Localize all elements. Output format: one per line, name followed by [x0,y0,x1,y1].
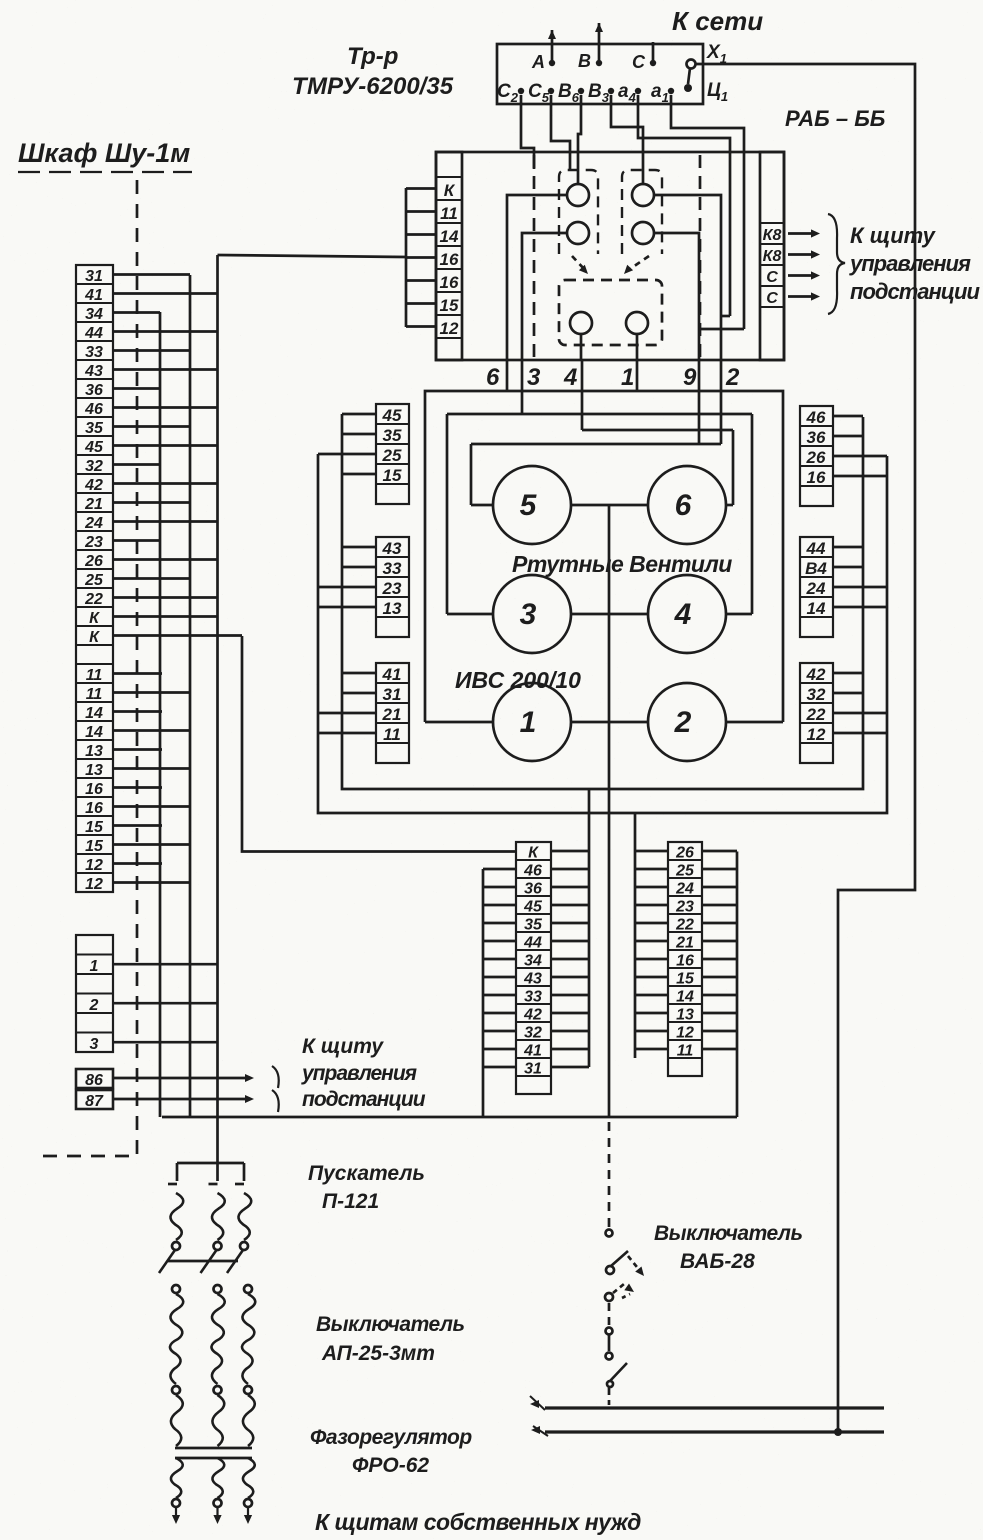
strip cell 42 [800,663,833,683]
stub wire 22 right [702,922,737,925]
strip cell 22 [800,703,833,723]
breaker top terminal x=248 [244,1285,252,1293]
svg-text:13: 13 [383,599,402,618]
ВАБ blade lower [610,1363,627,1381]
svg-text:24: 24 [806,579,826,598]
svg-text:25: 25 [382,446,402,465]
starter top bar left [177,1162,218,1165]
contact circle a1 [567,184,589,206]
svg-text:9: 9 [683,364,697,391]
stub wire 11 left [635,1048,668,1051]
svg-text:26: 26 [806,448,826,467]
svg-text:41: 41 [523,1043,542,1060]
РАБ strip cell 12 [436,315,462,338]
svg-text:42: 42 [84,477,103,494]
stub wire 42 [113,482,217,485]
cabinet bus 3 [216,255,219,1163]
cabinet strip cell 31 [76,265,113,284]
svg-text:31: 31 [85,268,103,285]
dashed frame line left [533,155,536,357]
wire a4 into РАБ right [638,95,730,316]
brace for К щиту управления [828,214,845,314]
breaker mid terminal [244,1386,252,1394]
РАБ strip cell С [760,265,784,286]
svg-text:23: 23 [675,899,694,916]
svg-text:подстанции: подстанции [302,1088,426,1111]
strip cell 11 [376,723,409,743]
stub wire 25 left [635,868,668,871]
dashed contact group box upper-right [622,170,662,254]
stub wire 14 [406,233,436,236]
stub wire 15 [406,302,436,305]
stub wire 14 [113,710,162,713]
contact circle c1 [570,312,592,334]
stub wire 23 left [635,904,668,907]
strip cell 14 [668,986,702,1004]
stub wire 16 [113,805,190,808]
svg-text:В: В [578,51,591,71]
svg-text:14: 14 [85,724,103,741]
stub wire 23 [113,539,160,542]
svg-text:36: 36 [807,428,826,447]
terminal 87 [76,1090,113,1109]
strip cell 44 [800,537,833,557]
breaker mid terminal [172,1386,180,1394]
svg-text:11: 11 [383,725,401,744]
stub wire 34 [113,311,160,314]
svg-text:Ртутные Вентили: Ртутные Вентили [512,551,732,577]
mercury valve 4 [648,575,726,653]
strip cell 35 [376,424,409,444]
bus left of bottom-left strip [482,869,485,1117]
stub wire 45 [113,444,217,447]
strip cell 42 [516,1004,551,1022]
cabinet strip cell К [76,607,113,626]
tie a4-wire to lead 2 [721,315,730,318]
ВАБ blade upper [611,1251,628,1266]
svg-text:РАБ – ББ: РАБ – ББ [785,106,885,131]
ВАБ contact 2 [606,1266,614,1274]
svg-text:11: 11 [440,204,458,223]
stub wire 26 [833,455,887,458]
svg-text:К: К [89,629,100,646]
stub wire К [113,634,242,637]
stub wire 13 right [702,1012,737,1015]
stub wire 16 [406,256,436,259]
РАБ strip cell С [760,286,784,307]
svg-text:15: 15 [85,819,104,836]
dashed link [608,1303,611,1326]
strip 46/36/26/16 [800,406,833,506]
cabinet strip cell 46 [76,398,113,417]
output arrow down [247,1508,249,1518]
strip cell 13 [376,597,409,617]
svg-text:К8: К8 [763,227,782,244]
svg-text:15: 15 [383,466,402,485]
РАБ left terminal strip (К,11,14,16,16,15,12) [436,152,462,360]
svg-text:46: 46 [523,863,542,880]
wire contact b1 to lead 2 [654,195,721,360]
svg-text:44: 44 [523,935,542,952]
breaker element upper x=217.5 [211,1294,224,1384]
stub wire 12 left [635,1030,668,1033]
svg-text:12: 12 [676,1025,694,1042]
svg-text:16: 16 [676,953,694,970]
stub wire 25 right [702,868,737,871]
ВАБ contact 1 [606,1230,613,1237]
strip cell К [516,842,551,860]
cabinet strip cell 16 [76,797,113,816]
bottom-left terminal strip [516,842,551,1094]
stub wire 36 [833,435,863,438]
stub wire 14 left [635,994,668,997]
mercury valve 2 [648,683,726,761]
stub wire 32 right [551,1030,589,1033]
stub wire 22 [113,596,217,599]
stub wire 16 left [635,958,668,961]
svg-text:К: К [528,845,539,862]
strip cell 14 [800,597,833,617]
output arrow down [175,1508,177,1518]
contact circle b2 [632,222,654,244]
stub wire 42 [833,672,863,675]
strip cell 24 [800,577,833,597]
strip 45/35/25/15 [376,404,409,504]
strip cell 26 [668,842,702,860]
strip cell 21 [668,932,702,950]
strip cell 26 [800,446,833,466]
svg-text:87: 87 [85,1093,104,1110]
РАБ strip cell 16 [436,269,462,292]
svg-text:22: 22 [84,591,103,608]
svg-text:21: 21 [675,935,694,952]
svg-text:3: 3 [520,598,537,631]
strip cell 32 [516,1022,551,1040]
svg-text:41: 41 [84,287,103,304]
svg-text:К щиту: К щиту [302,1035,384,1058]
stub wire 12 [833,732,887,735]
svg-text:4: 4 [674,598,692,631]
starter fixed contact at x=217.5 [216,1163,219,1181]
mercury valve 5 [493,466,571,544]
strip cell 25 [668,860,702,878]
strip cell 43 [516,968,551,986]
stub wire 43 [342,546,376,549]
strip cell 33 [376,557,409,577]
svg-text:ВАБ-28: ВАБ-28 [680,1250,755,1273]
stub wire 25 [113,577,190,580]
lead 6 down to valve box [506,360,509,391]
bus left of РАБ strip [405,188,408,327]
cabinet strip cell 25 [76,569,113,588]
cabinet strip cell 23 [76,531,113,550]
stub wire 14 [833,606,887,609]
lead 2 down [720,360,723,444]
stub wire 34 left [483,958,516,961]
wire valve3-valve4 [571,613,648,616]
breaker element lower x=176 [171,1395,183,1446]
drop to valve 4 [751,414,754,614]
mercury valve cubicle box [425,391,783,722]
stub wire 33 [113,349,190,352]
svg-text:42: 42 [806,665,826,684]
stub wire 45 left [483,904,516,907]
dashed contact group box upper-left [559,170,598,254]
svg-text:43: 43 [523,971,542,988]
cabinet strip cell 11 [76,683,113,702]
breaker mid terminal [214,1386,222,1394]
dashed contact group box lower [559,280,662,345]
lead into valve 5 [471,504,493,507]
cabinet strip cell 44 [76,322,113,341]
stub wire 36 left [483,886,516,889]
stub wire 11 [113,691,190,694]
svg-text:12: 12 [440,319,459,338]
cabinet strip cell 34 [76,303,113,322]
starter contact blade [159,1250,175,1273]
lead 4 down [581,360,584,430]
strip cell 46 [516,860,551,878]
svg-text:управления: управления [301,1062,417,1085]
stub wire 15 right [702,976,737,979]
stub wire 14 right [702,994,737,997]
tie a1-wire to lead 9 [699,328,744,331]
strip cell 15 [376,464,409,484]
cabinet bus 2 [189,275,192,1117]
stub wire 26 [113,558,217,561]
stub wire 15 left [635,976,668,979]
cabinet strip cell 13 [76,759,113,778]
svg-text:14: 14 [676,989,694,1006]
strip cell 41 [376,663,409,683]
stub wire 11 [318,732,376,735]
strip cell 31 [516,1058,551,1076]
svg-text:21: 21 [382,705,402,724]
strip cell 1 [76,955,113,975]
arrow to substation panel (С) [788,274,816,277]
wire B6 to contact a [578,95,581,184]
strip cell 16 [800,466,833,486]
svg-text:4: 4 [563,364,577,391]
svg-text:подстанции: подстанции [850,279,980,304]
svg-text:45: 45 [382,406,402,425]
svg-text:2: 2 [674,706,692,739]
cabinet strip cell 21 [76,493,113,512]
starter contact blade [227,1250,243,1273]
wire a1 into РАБ right [671,95,744,329]
drop to valve 5 [470,444,473,505]
bottom edge from valve 2 [726,721,783,724]
svg-text:32: 32 [524,1025,542,1042]
strip cell 3 [76,1033,113,1053]
regulator winding x=248 [243,1458,255,1498]
output arrow down [216,1508,218,1518]
svg-text:16: 16 [85,781,103,798]
cabinet strip cell 45 [76,436,113,455]
svg-text:16: 16 [85,800,103,817]
starter contact pivot [214,1242,222,1250]
loop bus 25-26 side [318,454,887,813]
svg-text:26: 26 [84,553,103,570]
stub wire 44 right [551,940,589,943]
cabinet strip cell 12 [76,854,113,873]
stub wire 31 right [551,1066,589,1069]
wire valve5-valve6 [571,504,648,507]
stub wire 21 right [702,940,737,943]
svg-text:1: 1 [621,364,634,391]
long wire РАБ strip to cabinet bus [218,255,407,257]
starter top bar right [218,1162,245,1165]
cabinet strip cell 22 [76,588,113,607]
stub wire 12 [406,325,436,328]
arrow to substation panel (К8) [788,232,816,235]
cabinet strip cell 14 [76,721,113,740]
РАБ right terminal strip (К8,К8,С,С) [760,152,784,360]
svg-text:ТМРУ-6200/35: ТМРУ-6200/35 [292,73,454,100]
svg-text:С: С [766,269,778,286]
cabinet strip cell 42 [76,474,113,493]
stub wire 35 left [483,922,516,925]
cabinet strip cell 15 [76,816,113,835]
stub wire 31 left [483,1066,516,1069]
stub wire 34 right [551,958,589,961]
svg-text:14: 14 [807,599,826,618]
strip cell 13 [668,1004,702,1022]
svg-text:36: 36 [524,881,542,898]
svg-text:13: 13 [85,762,103,779]
cabinet strip cell 11 [76,664,113,683]
svg-text:41: 41 [382,665,402,684]
svg-text:86: 86 [85,1072,103,1089]
svg-text:43: 43 [382,539,402,558]
strip 41/31/21/11 [376,663,409,763]
starter fixed contact at x=244 [243,1163,246,1181]
svg-text:35: 35 [85,420,104,437]
starter heater element x=244 [238,1193,251,1240]
stub wire 32 [833,692,863,695]
strip cell blank [76,974,113,994]
busbar upper [545,1406,884,1409]
supply line phase A [551,30,554,62]
regulator bar lower [175,1457,252,1460]
anode wire row y414 [447,413,752,416]
strip cell 16 [668,950,702,968]
stub wire 35 [113,425,190,428]
stub wire 21 [318,712,376,715]
stub wire 11 right [702,1048,737,1051]
cabinet strip cell 12 [76,873,113,892]
cabinet strip cell 36 [76,379,113,398]
drop to valve 6 [732,430,735,505]
stub wire 44 [113,330,217,333]
drop to valve 3 [446,414,449,614]
cabinet strip cell 16 [76,778,113,797]
stub wire К [406,187,436,190]
svg-text:В4: В4 [805,559,827,578]
stub wire 41 [342,672,376,675]
svg-text:32: 32 [807,685,826,704]
svg-text:А: А [531,52,545,72]
bus down to strip right-bottom [634,813,637,1058]
arrow to substation panel (К8) [788,253,816,256]
svg-text:11: 11 [677,1043,694,1060]
svg-text:3: 3 [527,364,541,391]
lead 1 down to valve box [636,360,639,391]
svg-text:ФРО-62: ФРО-62 [352,1454,429,1477]
stub wire 35 [342,433,376,436]
cabinet strip cell 14 [76,702,113,721]
regulator winding x=217.5 [212,1458,224,1498]
svg-text:14: 14 [85,705,103,722]
stub wire К right [551,850,589,853]
svg-text:1: 1 [90,958,99,975]
stub wire 22 left [635,922,668,925]
wire C2 into РАБ [521,95,534,169]
stub wire 15 [342,473,376,476]
svg-text:11: 11 [86,686,103,703]
svg-text:34: 34 [85,306,103,323]
stub wire 12 [113,862,162,865]
РАБ strip cell К8 [760,223,784,244]
stub wire 12 right [702,1030,737,1033]
svg-text:К: К [89,610,100,627]
stub wire 13 [113,767,190,770]
stub wire 43 [113,368,217,371]
svg-text:33: 33 [383,559,402,578]
strip cell blank [76,1013,113,1033]
svg-text:12: 12 [807,725,826,744]
svg-text:13: 13 [676,1007,694,1024]
svg-text:24: 24 [84,515,103,532]
wire contact a1 to lead 6 [507,195,567,360]
svg-text:2: 2 [725,364,740,391]
stub wire 33 right [551,994,589,997]
strip cell 35 [516,914,551,932]
terminal strip 1/2/3 [76,935,113,1052]
transformer T1 ТМРУ-6200/35 box [497,44,703,104]
long bottom wire y1117 [162,1116,737,1119]
supply line phase B [598,23,601,62]
loop bus 45-46 side [342,414,863,789]
strip cell 23 [668,896,702,914]
svg-text:22: 22 [675,917,694,934]
strip cell 12 [668,1022,702,1040]
cabinet strip cell 24 [76,512,113,531]
strip cell 45 [376,404,409,424]
wire B3 to contact b [611,95,643,184]
contact circle a2 [567,222,589,244]
lead into valve 4 [726,613,752,616]
stub wire 46 left [483,868,516,871]
supply line phase C [652,42,655,62]
stub wire 35 right [551,922,589,925]
РАБ strip cell К [436,177,462,200]
svg-text:15: 15 [440,296,459,315]
svg-text:Тр-р: Тр-р [347,43,398,70]
svg-text:П-121: П-121 [322,1190,379,1213]
strip cell 44 [516,932,551,950]
dashed frame line right [699,155,702,357]
svg-text:Шкаф Шу-1м: Шкаф Шу-1м [18,138,190,168]
svg-text:АП-25-3мт: АП-25-3мт [321,1342,435,1365]
stub wire 25 [318,453,376,456]
svg-text:35: 35 [524,917,543,934]
svg-text:44: 44 [84,325,103,342]
stub wire 26 left [635,850,668,853]
stub wire 15 [113,843,190,846]
svg-text:13: 13 [85,743,103,760]
strip cell 15 [668,968,702,986]
